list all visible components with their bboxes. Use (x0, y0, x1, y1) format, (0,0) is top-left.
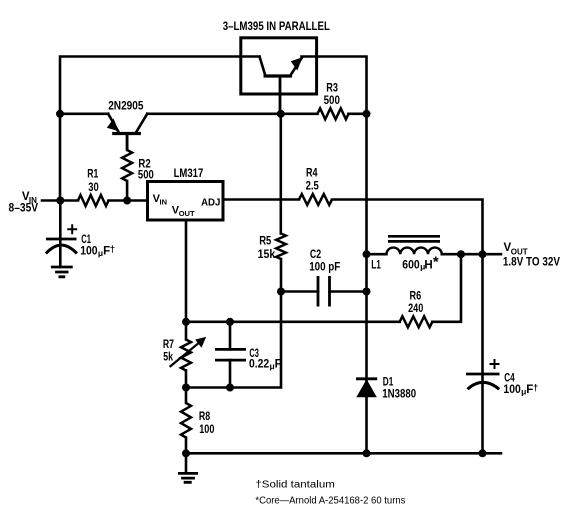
svg-text:1N3880: 1N3880 (382, 389, 416, 401)
svg-text:2N2905: 2N2905 (108, 101, 144, 113)
svg-text:30: 30 (88, 182, 99, 194)
svg-text:R7: R7 (163, 339, 174, 351)
svg-text:0.22: 0.22 (249, 359, 269, 371)
svg-text:500: 500 (138, 169, 154, 181)
svg-text:500: 500 (324, 95, 340, 107)
svg-text:8–35V: 8–35V (9, 203, 39, 215)
svg-text:100 pF: 100 pF (309, 262, 340, 274)
svg-text:IN: IN (160, 197, 168, 206)
svg-text:100: 100 (199, 424, 214, 436)
svg-text:R8: R8 (199, 411, 211, 423)
svg-text:*Core—Arnold A-254168-2 60 tur: *Core—Arnold A-254168-2 60 turns (255, 495, 405, 506)
svg-text:D1: D1 (383, 376, 394, 388)
svg-text:240: 240 (408, 303, 423, 315)
svg-text:†Solid tantalum: †Solid tantalum (255, 480, 335, 491)
svg-text:F: F (275, 359, 282, 371)
svg-text:5k: 5k (163, 351, 173, 363)
svg-text:†: † (110, 244, 115, 255)
svg-text:100: 100 (503, 384, 520, 396)
svg-text:R3: R3 (326, 83, 338, 95)
svg-text:3–LM395 IN PARALLEL: 3–LM395 IN PARALLEL (223, 21, 330, 33)
svg-text:C4: C4 (504, 373, 515, 385)
svg-text:C2: C2 (310, 249, 321, 261)
svg-text:R1: R1 (87, 168, 99, 180)
svg-text:ADJ: ADJ (201, 196, 220, 208)
svg-text:15k: 15k (258, 249, 276, 261)
svg-text:100: 100 (80, 246, 97, 258)
svg-text:2.5: 2.5 (306, 180, 320, 192)
svg-text:600: 600 (402, 260, 419, 272)
svg-text:OUT: OUT (179, 209, 195, 218)
svg-text:LM317: LM317 (174, 168, 204, 180)
svg-text:C1: C1 (81, 234, 91, 246)
svg-text:1.8V TO 32V: 1.8V TO 32V (503, 257, 560, 269)
svg-text:OUT: OUT (511, 248, 528, 257)
svg-text:H: H (424, 260, 432, 272)
svg-text:R4: R4 (306, 168, 318, 180)
svg-text:*: * (433, 254, 439, 271)
svg-text:†: † (533, 383, 538, 394)
svg-text:L1: L1 (371, 260, 381, 272)
svg-text:R6: R6 (410, 291, 422, 303)
svg-text:R5: R5 (259, 236, 272, 248)
